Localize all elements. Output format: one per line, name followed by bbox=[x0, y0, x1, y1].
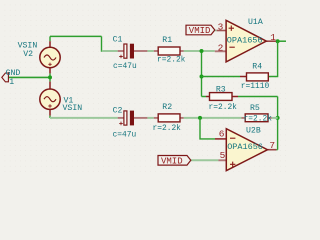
svg-text:R2: R2 bbox=[162, 103, 172, 112]
op-amp U2B bbox=[226, 127, 267, 171]
pin R2 right stub bbox=[180, 117, 184, 119]
wire C1 row pale segment bbox=[102, 50, 118, 52]
wire R1 to op-amp pin2 bbox=[184, 50, 215, 52]
svg-text:GND: GND bbox=[6, 69, 21, 78]
svg-text:1: 1 bbox=[9, 78, 14, 87]
svg-text:2: 2 bbox=[218, 43, 224, 54]
wire R3 right to column bbox=[238, 96, 278, 98]
pin R2 left stub bbox=[154, 117, 158, 119]
svg-text:R1: R1 bbox=[162, 36, 172, 45]
wire GND net bbox=[8, 76, 50, 78]
wire V2 top horizontal bbox=[50, 35, 102, 37]
svg-text:r=2.2k: r=2.2k bbox=[209, 103, 238, 112]
label V1 fields bbox=[63, 97, 83, 114]
voltage source V1 bbox=[40, 89, 60, 109]
wire V2 top vertical bbox=[49, 36, 51, 41]
pin number 2 bbox=[218, 43, 224, 54]
wire U2B output corner bbox=[276, 149, 277, 151]
svg-text:VMID: VMID bbox=[161, 156, 183, 166]
node junction sources GND bbox=[48, 75, 52, 79]
svg-text:C1: C1 bbox=[113, 36, 123, 45]
node junction R2 pin6 bbox=[198, 116, 202, 120]
wire R2 to R5 left bbox=[184, 117, 242, 119]
svg-text:3: 3 bbox=[218, 21, 224, 32]
pin R1 left stub bbox=[154, 50, 158, 52]
pin C2 right stub bbox=[134, 117, 147, 119]
svg-text:c=47u: c=47u bbox=[113, 130, 137, 139]
label V2 fields bbox=[18, 42, 38, 59]
svg-text:r=1110: r=1110 bbox=[241, 82, 270, 91]
svg-text:r=2.2k: r=2.2k bbox=[157, 55, 186, 64]
resistor R2 bbox=[153, 103, 182, 133]
pin U1A output stub bbox=[266, 40, 276, 42]
svg-text:OPA1656: OPA1656 bbox=[227, 36, 263, 46]
svg-text:c=47u: c=47u bbox=[113, 62, 137, 71]
pin C2 left stub bbox=[118, 117, 124, 119]
op-amp U1A bbox=[226, 18, 266, 62]
node junction U1A output bbox=[276, 39, 280, 43]
wire V1 bottom to C2 bbox=[50, 116, 118, 118]
wire C2 to R2 bbox=[147, 117, 153, 119]
svg-text:U1A: U1A bbox=[248, 18, 263, 27]
node junction R5 right bbox=[276, 116, 280, 120]
global label VMID top bbox=[186, 25, 215, 36]
pin C1 right stub bbox=[134, 50, 147, 52]
pin number 7 bbox=[269, 140, 275, 151]
wire drop to C1 row bbox=[102, 36, 114, 51]
pin R3 right stub bbox=[232, 96, 238, 98]
pin number 5 bbox=[220, 150, 226, 161]
pin R3 left stub bbox=[206, 96, 210, 98]
wire corner to R3 left bbox=[202, 96, 207, 98]
pin number 1 bbox=[270, 32, 276, 43]
wire lower right column bbox=[277, 97, 279, 150]
wire drop to pin6 bbox=[200, 118, 215, 139]
svg-text:6: 6 bbox=[219, 129, 225, 140]
pin R5 left stub bbox=[242, 117, 246, 119]
voltage source V2 bbox=[40, 47, 60, 67]
pin U1A pin3 stub bbox=[217, 30, 227, 32]
pin R5 right stub bbox=[268, 117, 272, 119]
svg-text:VMID: VMID bbox=[189, 26, 211, 36]
pin U1A pin2 stub bbox=[215, 50, 227, 52]
wire output down to R4 right bbox=[268, 41, 277, 76]
svg-text:OPA1656: OPA1656 bbox=[227, 142, 263, 152]
wire to R4 left bbox=[202, 76, 241, 78]
pin U2B pin5 stub bbox=[218, 159, 226, 161]
pin U2B output stub bbox=[268, 149, 277, 151]
pin V1 bottom stub bbox=[49, 109, 51, 115]
svg-text:r=2.2k: r=2.2k bbox=[153, 124, 182, 133]
resistor R3 bbox=[209, 85, 238, 112]
wire between sources lower bbox=[49, 77, 51, 81]
svg-text:V2: V2 bbox=[23, 50, 33, 59]
svg-text:R5: R5 bbox=[250, 104, 260, 113]
pin R1 right stub bbox=[180, 50, 184, 52]
svg-text:C2: C2 bbox=[113, 107, 123, 116]
capacitor C1 bbox=[113, 36, 137, 71]
pin U2B pin6 stub bbox=[215, 138, 226, 140]
wire VMID to pin3 bbox=[215, 30, 217, 32]
wire feedback column vertical bbox=[201, 51, 203, 97]
resistor R4 bbox=[241, 62, 270, 91]
hierarchical label GND bbox=[2, 69, 21, 87]
wire VMID to pin5 bbox=[191, 159, 219, 161]
svg-text:VSIN: VSIN bbox=[63, 104, 83, 113]
svg-text:1: 1 bbox=[270, 32, 276, 43]
capacitor C2 bbox=[113, 107, 137, 140]
pin V2 top stub bbox=[49, 41, 51, 47]
pin V2 bottom stub bbox=[49, 68, 51, 74]
pin number 3 bbox=[218, 21, 224, 32]
svg-text:U2B: U2B bbox=[246, 127, 261, 136]
wire R5 right segment bbox=[272, 117, 278, 119]
node junction R1 pin2 bbox=[200, 49, 204, 53]
svg-text:r=2.2k: r=2.2k bbox=[244, 114, 273, 123]
pin V1 top stub bbox=[49, 82, 51, 89]
resistor R5 bbox=[244, 104, 273, 123]
resistor R1 bbox=[157, 36, 186, 64]
pin R4 left stub bbox=[240, 76, 247, 78]
wire between sources upper bbox=[49, 73, 51, 77]
svg-text:7: 7 bbox=[269, 140, 275, 151]
pin number 6 bbox=[219, 129, 225, 140]
pin C1 left stub bbox=[118, 50, 124, 52]
global label VMID bottom bbox=[158, 156, 191, 167]
svg-text:5: 5 bbox=[220, 150, 226, 161]
wire C1 to R1 bbox=[147, 50, 153, 52]
svg-text:R3: R3 bbox=[216, 85, 226, 94]
wire U1A output to edge bbox=[276, 40, 286, 42]
node junction R4 left bbox=[200, 75, 204, 79]
svg-text:R4: R4 bbox=[252, 62, 262, 71]
